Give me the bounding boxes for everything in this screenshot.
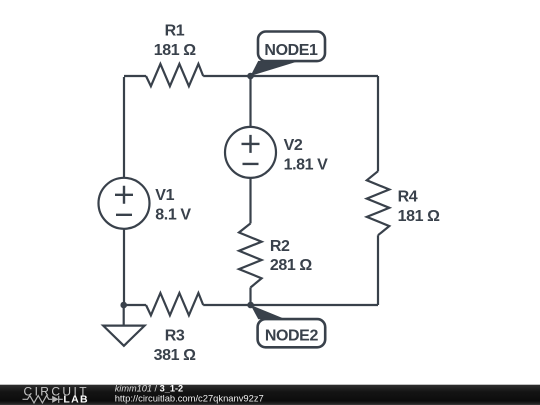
node NODE1 callout box bbox=[258, 32, 325, 62]
CircuitLab logo resistor-diode glyph bbox=[23, 396, 63, 403]
resistor R1 zigzag bbox=[146, 64, 203, 86]
svg-text:281 Ω: 281 Ω bbox=[270, 257, 313, 274]
svg-text:381 Ω: 381 Ω bbox=[154, 347, 197, 364]
wire top from R1 to right corner through NODE1 bbox=[203, 75, 378, 77]
svg-text:V2: V2 bbox=[284, 137, 303, 154]
svg-text:LAB: LAB bbox=[63, 394, 88, 405]
ground junction dot bbox=[120, 302, 127, 309]
wire right vertical bottom (R4 to bottom corner) bbox=[377, 235, 379, 305]
CircuitLab logo diode triangle bbox=[52, 396, 59, 403]
wire V2 branch top (NODE1 down to V2) bbox=[249, 76, 251, 127]
wire V1 to ground junction bbox=[123, 229, 125, 305]
svg-text:NODE2: NODE2 bbox=[265, 328, 319, 345]
resistor R2 zigzag bbox=[239, 223, 262, 287]
voltage source V2 bbox=[225, 127, 276, 178]
svg-text:R2: R2 bbox=[270, 238, 290, 255]
wire left vertical (top-left corner down to V1) bbox=[124, 76, 146, 178]
svg-text:R3: R3 bbox=[165, 328, 185, 345]
svg-text:http://circuitlab.com/c27qknan: http://circuitlab.com/c27qknanv92z7 bbox=[115, 393, 264, 404]
wire bottom from right corner to R3 through NODE2 bbox=[203, 304, 378, 306]
svg-text:R4: R4 bbox=[398, 188, 418, 205]
svg-text:V1: V1 bbox=[155, 187, 174, 204]
wire V2 to R2 bbox=[249, 178, 251, 224]
footer bar bbox=[0, 385, 540, 405]
svg-text:R1: R1 bbox=[165, 22, 185, 39]
node NODE2 callout box bbox=[258, 319, 326, 347]
node NODE1 junction dot bbox=[247, 73, 254, 80]
voltage source V1 bbox=[99, 178, 150, 229]
svg-text:181 Ω: 181 Ω bbox=[398, 208, 441, 225]
svg-text:181 Ω: 181 Ω bbox=[154, 42, 197, 59]
wire R2 to NODE2 bbox=[249, 288, 251, 306]
wire R3 to ground junction bbox=[124, 304, 146, 306]
node NODE1 callout pointer bbox=[251, 61, 300, 76]
ground bbox=[103, 305, 144, 346]
svg-text:NODE1: NODE1 bbox=[264, 42, 318, 59]
resistor R4 zigzag bbox=[367, 171, 390, 235]
wire right vertical top (corner down to R4) bbox=[377, 76, 379, 171]
resistor R3 zigzag bbox=[146, 293, 203, 315]
svg-text:1.81 V: 1.81 V bbox=[284, 157, 329, 174]
node NODE2 callout pointer bbox=[251, 305, 286, 319]
node NODE2 junction dot bbox=[247, 302, 254, 309]
svg-text:8.1 V: 8.1 V bbox=[155, 207, 191, 224]
